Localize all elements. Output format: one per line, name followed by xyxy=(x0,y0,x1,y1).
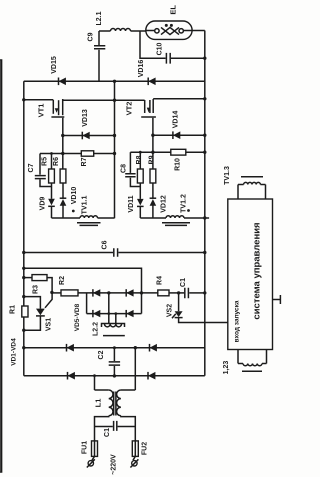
svg-text:R6: R6 xyxy=(53,157,60,166)
svg-text:VD11: VD11 xyxy=(128,195,135,212)
svg-text:TV1.1: TV1.1 xyxy=(82,196,89,215)
wire lamp right pin to right bus xyxy=(192,30,205,32)
wire bridge right side xyxy=(141,293,143,314)
wire left bus (top part, above R1) xyxy=(23,81,25,306)
wire AC line 1 xyxy=(24,347,205,349)
transformer winding TV1.1 xyxy=(52,217,81,219)
wire right bus xyxy=(204,31,206,376)
svg-text:C9: C9 xyxy=(88,32,95,41)
svg-text:R2: R2 xyxy=(59,276,66,285)
svg-text:VD15: VD15 xyxy=(51,56,58,74)
wire left row py153.5 xyxy=(40,153,115,155)
resistor R1 xyxy=(22,306,28,317)
diode VD11 xyxy=(137,199,144,206)
svg-text:EL: EL xyxy=(169,5,178,15)
transformer winding TV1.3 xyxy=(238,185,266,200)
wire VT2 drain to right bus xyxy=(153,98,205,100)
transistor VT1 xyxy=(24,99,53,101)
transformer winding TV1.2 xyxy=(140,217,166,219)
wire left bus (bottom part, below R1) xyxy=(23,317,25,376)
wire bus-to-bridge link xyxy=(24,268,142,293)
svg-text:C1: C1 xyxy=(180,278,187,287)
svg-text:VD13: VD13 xyxy=(82,109,89,127)
fuse FU2 xyxy=(132,441,138,457)
svg-text:C7: C7 xyxy=(28,163,35,172)
node: mid vertical junction on top bus xyxy=(113,80,116,83)
svg-text:R8: R8 xyxy=(136,155,143,164)
svg-text:R1: R1 xyxy=(10,305,17,314)
resistor R8 xyxy=(137,169,143,183)
winding below box (pins 1,23) xyxy=(238,350,267,364)
capacitor C10 xyxy=(140,31,166,58)
svg-text:VD16: VD16 xyxy=(138,60,145,78)
svg-text:VS1: VS1 xyxy=(46,318,53,331)
svg-text:C8: C8 xyxy=(121,164,128,173)
resistor R6 xyxy=(60,169,66,183)
lamp EL xyxy=(146,21,192,39)
diode VD4 xyxy=(147,372,149,380)
inductor L2.2 xyxy=(109,314,116,324)
svg-text:L2.1: L2.1 xyxy=(96,11,103,25)
wire bridge middle xyxy=(108,293,110,314)
capacitor C1 (mains) xyxy=(95,426,113,428)
capacitor C8 xyxy=(129,152,131,173)
svg-text:VD9: VD9 xyxy=(40,197,47,211)
terminal input 2 xyxy=(133,456,135,460)
resistor R3 xyxy=(32,275,47,281)
svg-text:TV1.2: TV1.2 xyxy=(181,194,188,213)
control system box xyxy=(228,199,273,350)
svg-text:FU1: FU1 xyxy=(82,441,89,454)
svg-text:система управления: система управления xyxy=(252,222,263,319)
transformer choke L1 xyxy=(134,346,137,349)
capacitor C2 xyxy=(113,346,116,349)
fuse FU1 xyxy=(92,441,98,457)
svg-text:R7: R7 xyxy=(81,157,88,166)
svg-text:TV1.3: TV1.3 xyxy=(224,166,231,185)
diode VD8 xyxy=(125,310,127,317)
capacitor C7 xyxy=(39,154,41,175)
wire AC line 2 xyxy=(24,375,205,377)
svg-text:R3: R3 xyxy=(33,285,40,294)
svg-text:VT1: VT1 xyxy=(37,104,46,118)
wire VD13 row xyxy=(63,135,115,137)
diode VD3 xyxy=(149,344,151,352)
wire VT1 source chain down xyxy=(62,136,64,170)
diode VD16 xyxy=(147,78,149,86)
wire VD14 row xyxy=(153,134,205,136)
diode VD7 xyxy=(92,310,94,317)
svg-text:L2.2: L2.2 xyxy=(93,322,100,336)
diode VD10 xyxy=(60,197,67,199)
capacitor C9 xyxy=(98,31,100,45)
svg-text:C10: C10 xyxy=(157,42,164,55)
svg-text:R4: R4 xyxy=(157,276,164,285)
thyristor VS2 xyxy=(178,293,180,311)
diode VD5 xyxy=(92,289,94,296)
svg-text:FU2: FU2 xyxy=(142,442,149,455)
svg-text:VD1-VD4: VD1-VD4 xyxy=(11,338,18,366)
wire bridge left side xyxy=(86,293,88,314)
capacitor C1 (snubber) xyxy=(185,288,189,298)
resistor R5 xyxy=(49,169,55,183)
svg-text:~220V: ~220V xyxy=(111,454,118,475)
svg-text:VD12: VD12 xyxy=(161,195,168,213)
inductor L2.1 xyxy=(99,30,111,32)
svg-text:1,23: 1,23 xyxy=(223,361,230,375)
capacitor C6 xyxy=(24,252,113,254)
svg-text:VS2: VS2 xyxy=(167,304,174,317)
svg-text:L1: L1 xyxy=(94,399,103,408)
resistor R10 xyxy=(171,149,186,155)
wire VT2 source chain down xyxy=(152,135,154,169)
terminal tick on box right xyxy=(273,299,281,301)
svg-text:VD14: VD14 xyxy=(173,111,180,129)
wire VT1 drain to mid node xyxy=(63,99,115,101)
wire bridge top line xyxy=(78,292,158,294)
resistor R2 xyxy=(61,290,78,296)
resistor R4 xyxy=(158,290,169,296)
svg-text:R5: R5 xyxy=(42,157,49,166)
svg-text:C1: C1 xyxy=(104,428,111,437)
svg-text:VD5-VD8: VD5-VD8 xyxy=(74,303,81,331)
diode VD9 xyxy=(48,199,55,206)
svg-text:VT2: VT2 xyxy=(125,102,134,116)
wire top bus py81 xyxy=(24,80,205,82)
diode VD12 xyxy=(150,197,157,199)
thyristor VS1 xyxy=(22,295,25,298)
wire right row py152.2 xyxy=(130,151,204,153)
transistor VT2 xyxy=(115,99,145,101)
svg-text:R10: R10 xyxy=(175,158,182,171)
svg-text:R9: R9 xyxy=(149,155,156,164)
wire bridge bottom line xyxy=(87,313,142,315)
diode VD6 xyxy=(125,289,127,296)
wire mid vertical xyxy=(114,81,116,218)
diode VD13 xyxy=(81,132,83,140)
resistor R9 xyxy=(150,169,156,183)
diode VD15 xyxy=(58,78,60,86)
diode VD1 xyxy=(66,344,68,352)
svg-text:C2: C2 xyxy=(98,350,105,359)
terminal input 1 xyxy=(92,456,95,460)
svg-text:вход запуска: вход запуска xyxy=(234,300,241,342)
diode VD2 xyxy=(67,372,69,380)
svg-text:C6: C6 xyxy=(102,240,109,249)
resistor R7 xyxy=(81,151,93,156)
svg-text:VD10: VD10 xyxy=(71,187,78,205)
scan edge stripe xyxy=(0,60,2,472)
diode VD14 xyxy=(172,131,174,139)
